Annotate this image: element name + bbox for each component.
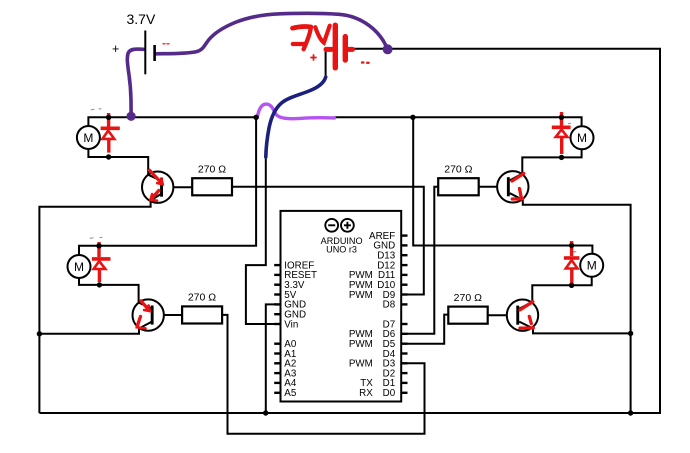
- Arduino left pin ticks: [274, 264, 280, 394]
- junction Arduino GND on bottom ground rail: [263, 410, 268, 415]
- svg-text:M: M: [577, 131, 587, 145]
- gray specks near diode D1: [91, 109, 102, 110]
- svg-text:M: M: [587, 259, 597, 273]
- svg-text:PWM: PWM: [349, 359, 373, 370]
- svg-text:--: --: [162, 36, 170, 50]
- node purple junction blob at 7V negative rail: [383, 44, 393, 54]
- wire T2 emitter to right emitter rail: [523, 200, 631, 413]
- svg-text:D8: D8: [383, 300, 396, 311]
- motor M2: [571, 126, 594, 149]
- wire purple 3.7V negative lead over to right node: [157, 13, 386, 53]
- junction Q4 emitter on right emitter rail: [628, 331, 633, 336]
- svg-text:PWM: PWM: [349, 339, 373, 350]
- svg-text:M: M: [74, 260, 84, 274]
- Arduino left pin labels: [284, 260, 317, 399]
- junction diode D3 top: [96, 243, 101, 248]
- wire T1 emitter to left ground rail: [39, 201, 150, 414]
- motor M3: [68, 255, 91, 278]
- gray specks near diode D3: [90, 237, 103, 238]
- motor M4: [580, 254, 603, 277]
- wire 7V battery negative lead to right rail and bottom ground rail: [39, 49, 660, 413]
- resistor R1 270 ohm top-left: [192, 164, 232, 196]
- junction top rail to lower-left motor branch: [253, 115, 258, 120]
- transistor Q4 bottom-right: [507, 300, 538, 331]
- wire R4 to pin D5: [407, 315, 448, 344]
- diode D2 flyback for motor M2: [552, 112, 571, 154]
- wire top rail right section to motor M2: [334, 117, 582, 126]
- wire T3 emitter to left rail: [39, 329, 139, 334]
- wire GND pin to bottom rail: [266, 304, 276, 413]
- diode D3 flyback for motor M3: [92, 242, 111, 282]
- wire motor M3 bottom rail to T3 collector: [79, 278, 139, 303]
- svg-text:+: +: [112, 42, 119, 56]
- svg-text:3.7V: 3.7V: [127, 11, 156, 27]
- junction emitter rail on bottom ground rail: [628, 410, 633, 415]
- Arduino right pin labels: [369, 231, 396, 399]
- svg-text:270 Ω: 270 Ω: [454, 292, 482, 304]
- junction diode D1 top on +rail: [106, 115, 111, 120]
- junction top rail to lower-right motor branch: [410, 115, 415, 120]
- battery B2 7V hand-drawn red: [293, 25, 353, 68]
- node purple junction blob on top rail: [127, 112, 136, 121]
- Arduino right pin ticks: [401, 234, 407, 394]
- svg-text:Vin: Vin: [284, 319, 298, 330]
- svg-text:PWM: PWM: [349, 290, 373, 301]
- svg-text:M: M: [83, 131, 93, 145]
- wire riser x=256 joining lower-left motor rail to top rail: [79, 117, 256, 255]
- wire T4 base to R4: [487, 314, 516, 316]
- wire top-left rail from motor M1 to node x=257: [88, 117, 257, 126]
- svg-text:270 Ω: 270 Ω: [444, 164, 472, 176]
- junction diode D2 top on +rail: [559, 115, 564, 120]
- junction diode D3 bottom / motor M3 negative: [97, 282, 102, 287]
- junction diode D4 bottom / motor M4 negative: [569, 283, 574, 288]
- svg-text:RX: RX: [359, 388, 373, 399]
- svg-text:D0: D0: [383, 388, 396, 399]
- junction Q3 emitter on left ground rail: [37, 331, 42, 336]
- gray speck near diode D2: [568, 122, 571, 124]
- wire R2 to pin D6: [407, 187, 438, 334]
- IC U1 Arduino UNO r3 body: [281, 211, 402, 402]
- svg-text:270 Ω: 270 Ω: [198, 164, 226, 176]
- wire R1 to pin D9: [232, 187, 424, 295]
- resistor R2 270 ohm top-right: [438, 164, 479, 196]
- wire R3 to pin D3: [222, 315, 424, 434]
- transistor Q2 top-right: [497, 171, 528, 202]
- transistor Q1 top-left: [142, 170, 173, 203]
- Arduino PWM TX RX prefix labels: [349, 270, 373, 399]
- battery B1 3.7V plates: [145, 31, 154, 75]
- wire magenta hand-drawn bridging top rail: [257, 104, 334, 119]
- gray speck near diode D4: [573, 251, 576, 253]
- wire motor M1 bottom rail to T1 collector: [88, 149, 148, 175]
- wire purple 3.7V positive lead down to top rail: [127, 49, 143, 113]
- wire T2 base to R2: [479, 186, 507, 188]
- motor M1: [77, 126, 100, 149]
- diode D4 flyback for motor M4: [564, 241, 580, 283]
- wire black stub below 7V battery: [325, 48, 327, 79]
- wire motor M4 bottom rail to T4 collector: [532, 277, 591, 302]
- wire T1 base to R1: [163, 186, 192, 188]
- junction diode D2 bottom / motor M2 negative: [559, 155, 564, 160]
- wire navy end to Vin pin: [246, 158, 276, 324]
- wire navy hand-drawn 7V negative to Vin wire: [266, 77, 326, 157]
- wire T3 base to R3: [154, 314, 183, 316]
- svg-text:270 Ω: 270 Ω: [188, 292, 216, 304]
- svg-text:A5: A5: [284, 388, 297, 399]
- junction diode D4 top: [569, 243, 574, 248]
- diode D1 flyback for motor M1: [101, 113, 120, 153]
- Arduino logo: [325, 219, 353, 232]
- label battery B2 minus marks: [361, 61, 370, 63]
- wire top rail node down to motor M4 rail: [413, 117, 592, 254]
- resistor R3 270 ohm bottom-left: [182, 292, 222, 324]
- transistor Q3 bottom-left: [133, 299, 164, 330]
- resistor R4 270 ohm bottom-right: [448, 292, 487, 324]
- label battery B2 plus sign: [310, 54, 316, 60]
- wire motor M2 bottom rail to T2 collector: [522, 149, 581, 173]
- wire T4 emitter joining right emitter rail: [533, 328, 631, 333]
- svg-text:UNO r3: UNO r3: [326, 245, 357, 255]
- junction diode D1 bottom / motor M1 negative: [106, 154, 111, 159]
